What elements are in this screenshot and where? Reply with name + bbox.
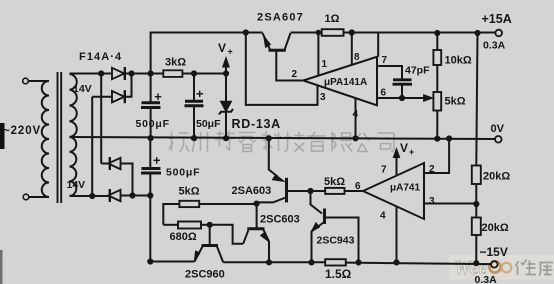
svg-text:0.3A: 0.3A — [483, 40, 506, 52]
transformer T1 primary winding — [42, 81, 49, 197]
wiper arrow — [424, 95, 434, 102]
svg-text:2SC603: 2SC603 — [260, 214, 300, 226]
watermark hangzhou company text row — [168, 131, 394, 153]
op-amp U1 uPA141A — [303, 57, 377, 106]
transistor Q2 2SA603 base bar — [285, 178, 288, 203]
resistor R1 3k body — [163, 70, 182, 77]
resistor R10 5k body (741 output) — [325, 188, 344, 194]
terminal -15V — [491, 261, 498, 268]
node C3 on pin6 wire — [400, 96, 404, 100]
wm char hang — [168, 132, 190, 153]
svg-text:F14A·4: F14A·4 — [79, 51, 122, 63]
Q5 emitter leg — [312, 223, 324, 263]
wire +raw riser to top rail — [151, 33, 263, 74]
wm char gong — [356, 133, 369, 152]
wire 5k left lead — [163, 204, 179, 225]
capacitor C4 500uF plates — [141, 169, 161, 174]
wire pin8 riser — [351, 33, 353, 65]
wire pin1 riser — [317, 33, 319, 76]
watermark weeqoo box — [449, 255, 554, 280]
svg-text:V: V — [400, 141, 408, 155]
capacitor C1 500uF lead — [150, 74, 152, 139]
transistor Q1 base bar — [269, 49, 286, 52]
wm char xian — [332, 132, 352, 152]
wire secondary bottom — [70, 195, 109, 197]
svg-text:5kΩ: 5kΩ — [179, 186, 200, 198]
node secondary bottom to D2 — [90, 194, 94, 198]
svg-text:2SA603: 2SA603 — [232, 185, 272, 197]
node 20k bottom on rail — [474, 261, 478, 265]
svg-text:6: 6 — [355, 181, 361, 192]
zener D5 RD-13A — [225, 74, 227, 102]
wire secondary top — [70, 73, 113, 75]
scan artifact left edge blob — [0, 123, 5, 149]
node pin2 on 0V — [447, 136, 451, 140]
V+ arrow top — [225, 66, 227, 74]
capacitor C3 47pF top lead — [378, 66, 402, 79]
Q5 base bar — [323, 209, 326, 225]
transformer T1 primary terminal bottom — [23, 194, 29, 200]
U1 pin3 wire — [246, 33, 318, 105]
svg-text:4: 4 — [353, 109, 359, 120]
node pin4 on rail — [394, 260, 398, 264]
wire pin7 riser — [377, 33, 379, 57]
svg-text:2SA607: 2SA607 — [257, 12, 304, 24]
node pin8 tap — [350, 30, 354, 34]
node 2SA603 emitter on 0V — [267, 136, 271, 140]
wire base node to 2SC603 collector — [210, 225, 244, 244]
2SA603 emitter arrow — [272, 175, 284, 182]
svg-text:2SC943: 2SC943 — [317, 235, 355, 247]
watermark ku char — [539, 263, 553, 276]
svg-text:+: + — [228, 47, 233, 57]
wire D2 out riser — [125, 74, 132, 97]
wire 680 right lead — [201, 224, 210, 226]
Q3 collector leg — [217, 247, 223, 263]
transformer core — [58, 72, 62, 203]
wire D1 out — [125, 73, 164, 75]
wire riser top winding to D3 — [100, 74, 102, 164]
svg-text:500μF: 500μF — [136, 118, 170, 130]
wire center tap 0V rail — [70, 137, 495, 139]
svg-text:500μF: 500μF — [166, 167, 200, 179]
svg-text:1Ω: 1Ω — [325, 13, 340, 25]
node zener top V+ — [224, 71, 228, 75]
Q4 emitter arrow — [261, 232, 270, 242]
U2 pin2 wire — [424, 139, 449, 174]
svg-text:μA741: μA741 — [390, 183, 420, 194]
wire 20k chain — [476, 33, 477, 263]
capacitor C2 50uF plates — [185, 101, 204, 106]
resistor R6 20k body — [472, 218, 481, 236]
svg-text:47pF: 47pF — [405, 65, 430, 77]
resistor R3 10k body — [433, 50, 441, 65]
node 50uF tap — [192, 71, 196, 75]
wire D3 right riser — [121, 164, 133, 196]
node D1-D2 join — [129, 71, 133, 75]
potentiometer R4 5k body — [433, 92, 441, 111]
node secondary top to D3 — [99, 71, 103, 75]
svg-text:3: 3 — [429, 196, 435, 207]
transistor Q4 2SC603 base bar — [247, 227, 264, 230]
wire -15V rail — [223, 262, 491, 264]
node N1 — [308, 189, 312, 193]
U2 pin7 V+ arrow — [396, 156, 398, 176]
Q3 base bar — [202, 244, 219, 247]
diode D1 — [112, 68, 124, 79]
op-amp U2 uA741 — [363, 163, 424, 219]
Q4 emitter leg — [264, 230, 270, 262]
watermark wei char — [516, 260, 554, 276]
wire — [29, 196, 49, 198]
node pin1 tap — [317, 31, 321, 35]
wm char si — [378, 133, 395, 152]
U1 pin6 wire to pot wiper — [377, 97, 427, 99]
svg-text:~220V: ~220V — [3, 125, 41, 137]
transformer T1 secondary winding top 14V — [70, 74, 77, 137]
svg-text:50μF: 50μF — [196, 118, 221, 130]
wire 680 left lead — [163, 224, 178, 226]
svg-text:3kΩ: 3kΩ — [165, 57, 186, 69]
wm char rui — [239, 133, 256, 152]
svg-text:14V: 14V — [67, 179, 86, 191]
resistor R7 5k body (left) — [179, 201, 199, 207]
U2 pin3 wire — [424, 203, 476, 205]
node 20k tap — [475, 31, 479, 35]
node +raw — [149, 71, 153, 75]
svg-text:680Ω: 680Ω — [170, 231, 197, 243]
transistor Q3 2SC960 base lead — [209, 225, 211, 245]
node Q5 emitter on rail — [309, 260, 313, 264]
svg-text:0.3A: 0.3A — [475, 274, 498, 284]
Q4 collector leg — [243, 230, 248, 244]
watermark weeqoo ring o — [502, 263, 512, 273]
resistor R2 1ohm body — [322, 29, 344, 36]
transistor Q1 collector leg — [285, 33, 291, 49]
wire D4 row — [108, 195, 150, 197]
transistor Q5 2SC943 collector — [311, 191, 323, 214]
svg-text:7: 7 — [381, 165, 387, 176]
resistor R5 20k body — [472, 166, 481, 185]
U1 pin4 wire — [355, 98, 357, 138]
svg-text:20kΩ: 20kΩ — [483, 171, 510, 183]
Q3 emitter leg — [195, 247, 203, 262]
svg-text:+: + — [409, 147, 414, 157]
Q2 collector leg — [257, 198, 286, 203]
capacitor C1 500uF plates — [141, 103, 161, 108]
svg-text:8: 8 — [354, 52, 360, 63]
wire 3k to zener node — [182, 73, 226, 75]
svg-text:+15A: +15A — [482, 12, 512, 26]
node 10k tap — [435, 31, 439, 35]
transformer T1 secondary winding bottom 14V — [70, 137, 77, 196]
wire D2 row — [92, 96, 112, 98]
U2 pin4 wire — [396, 206, 398, 262]
svg-text:3: 3 — [320, 92, 326, 103]
Q1 emitter arrow — [264, 36, 271, 48]
svg-text:RD-13A: RD-13A — [232, 117, 281, 131]
node Q5 base on rail — [356, 260, 360, 264]
scan artifact left edge bottom — [0, 250, 3, 284]
wm char ke — [262, 131, 282, 151]
wire 5k right lead — [199, 204, 256, 228]
wire D3 left — [101, 163, 108, 165]
svg-text:2SC960: 2SC960 — [185, 269, 225, 281]
svg-text:−15V: −15V — [480, 245, 508, 259]
wm char ji — [284, 132, 305, 152]
svg-text:10kΩ: 10kΩ — [445, 55, 472, 67]
node C1 bottom on 0V — [149, 136, 153, 140]
Q1 base lead — [276, 52, 303, 81]
svg-text:5kΩ: 5kΩ — [324, 176, 345, 188]
wm char te — [215, 131, 236, 152]
svg-text:2: 2 — [429, 164, 435, 175]
svg-text:20kΩ: 20kΩ — [482, 222, 509, 234]
C2 plus sign — [197, 91, 204, 98]
resistor R3 10k chain wire — [436, 33, 438, 139]
node 2SC603 base node — [255, 202, 259, 206]
C1 plus sign — [155, 94, 162, 101]
diode D4 — [108, 190, 120, 201]
svg-text:7: 7 — [382, 55, 388, 66]
transistor Q1 2SA607 emitter leg — [263, 33, 270, 49]
terminal +15V — [495, 30, 502, 37]
Q5 base wire — [326, 218, 359, 263]
wire — [28, 80, 49, 82]
Q5 emitter arrow — [311, 223, 320, 232]
wire -raw drop — [150, 196, 194, 262]
node -raw corner emitter rail — [148, 259, 152, 263]
svg-text:1: 1 — [322, 59, 328, 70]
svg-text:μPA141A: μPA141A — [324, 77, 367, 88]
svg-text:5kΩ: 5kΩ — [445, 96, 466, 108]
wire riser bottom winding to D2 — [91, 97, 93, 196]
watermark weeqoo ring Q — [489, 261, 500, 272]
svg-text:1.5Ω: 1.5Ω — [325, 267, 352, 281]
svg-text:0V: 0V — [491, 123, 505, 135]
svg-text:4: 4 — [380, 211, 386, 222]
Q2 base wire to N1 — [288, 190, 325, 192]
resistor R8 680ohm body — [178, 222, 201, 229]
node D4 join D3 — [130, 193, 134, 197]
svg-text:2: 2 — [292, 69, 298, 80]
wire 5k to 741 pin6 — [345, 190, 364, 192]
capacitor C3 47pF plates — [393, 80, 413, 84]
node pot bottom on 0V — [435, 137, 439, 141]
transformer T1 primary terminal top — [23, 78, 29, 84]
svg-text:6: 6 — [381, 88, 387, 99]
node 2SC960 base node — [208, 223, 212, 227]
wm char you — [308, 132, 326, 152]
node zener bottom — [224, 136, 228, 140]
Q3 emitter arrow — [194, 251, 200, 261]
wire top rail right segment — [291, 32, 496, 34]
diode D3 — [108, 158, 120, 169]
terminal 0V — [495, 136, 502, 143]
node Q4 emitter on rail — [267, 260, 271, 264]
node D4 join cap — [148, 193, 152, 197]
node divider mid — [474, 202, 478, 206]
wm char zhou — [193, 132, 208, 152]
C4 plus sign — [154, 157, 161, 164]
svg-text:V: V — [218, 41, 226, 55]
node pin4 on 0V — [353, 136, 357, 140]
node pin3 tap on rail — [244, 30, 248, 34]
svg-text:14V: 14V — [73, 83, 92, 95]
node C2 bottom on 0V — [192, 136, 196, 140]
wire 2SA603 emitter riser — [269, 138, 278, 176]
capacitor C4 500uF lower lead — [149, 138, 151, 196]
resistor R9 1.5ohm body — [325, 259, 346, 265]
diode D2 — [112, 91, 124, 102]
C3 bottom lead — [401, 86, 403, 99]
capacitor C2 50uF lead — [193, 74, 195, 139]
